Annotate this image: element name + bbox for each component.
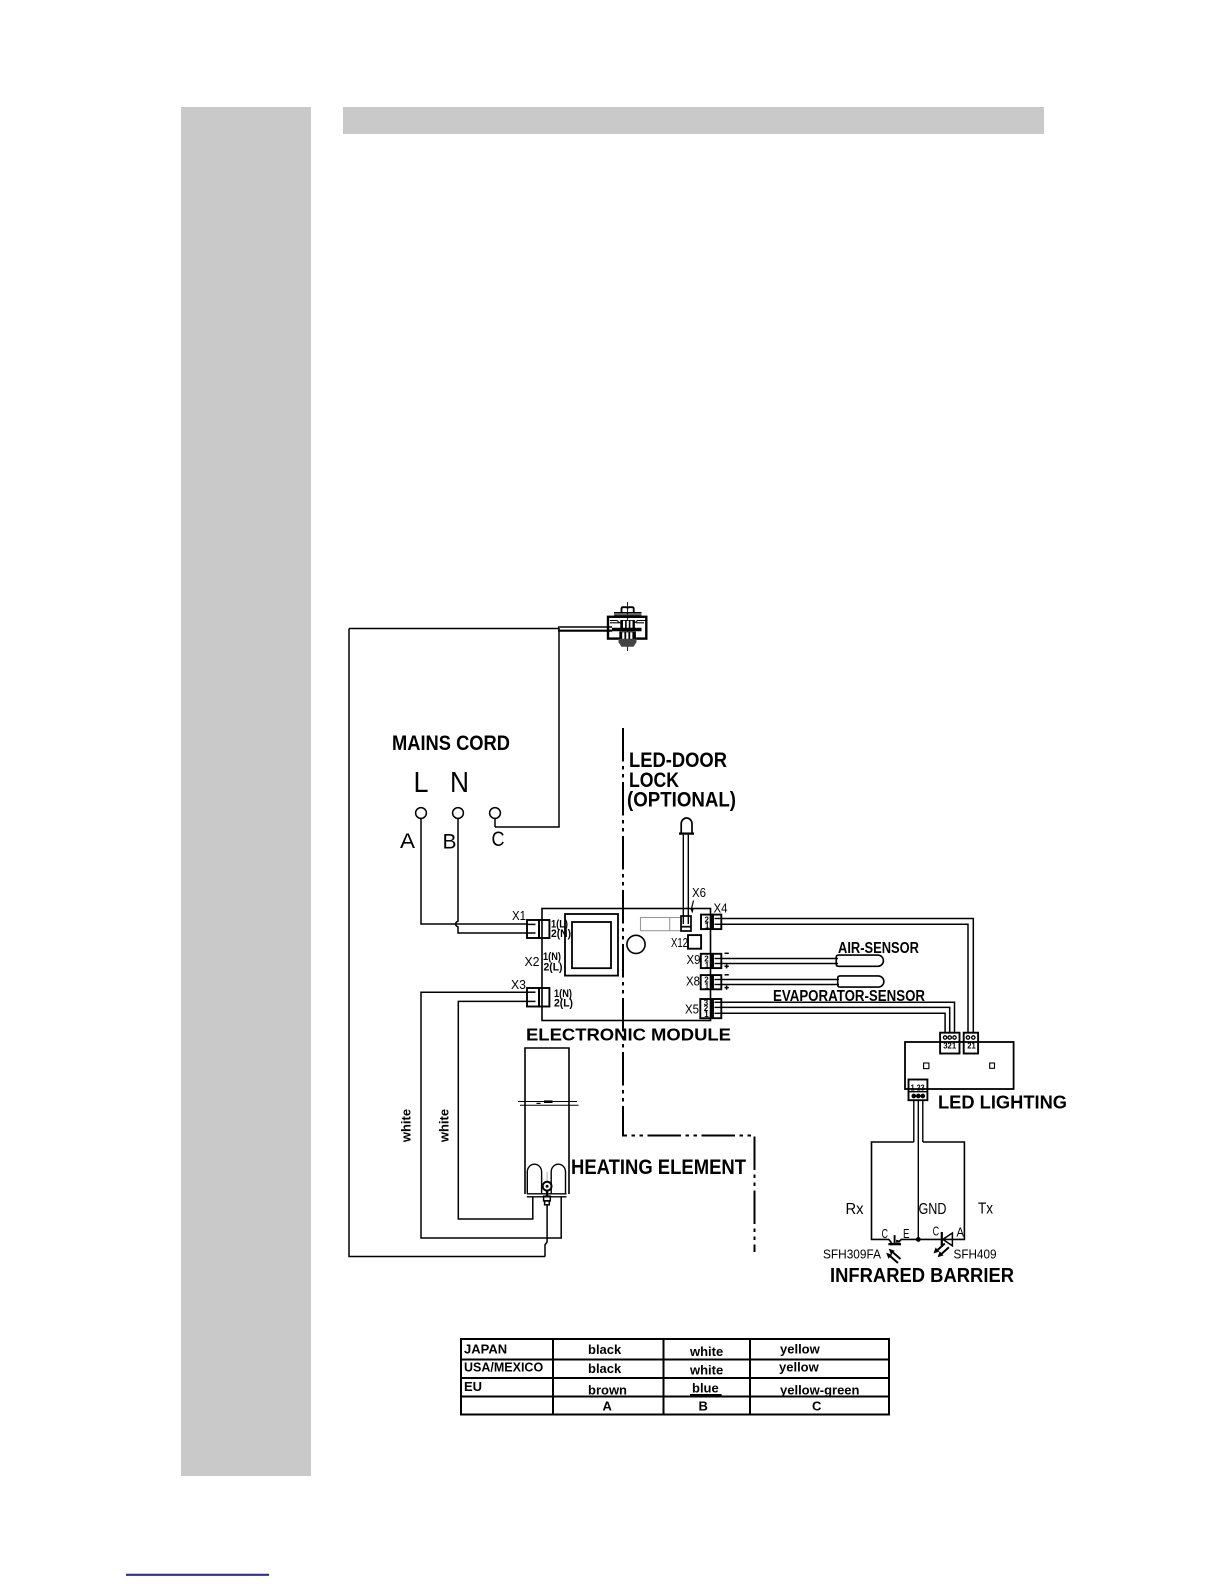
svg-text:white: white — [399, 1109, 414, 1143]
svg-text:(OPTIONAL): (OPTIONAL) — [627, 789, 736, 812]
wire: GND lead — [917, 1100, 919, 1239]
label X8 with polarity marks — [686, 974, 729, 990]
svg-text:black: black — [588, 1342, 622, 1357]
label X1 and pins 1(L) 2(N) — [512, 908, 571, 940]
wiring color table — [461, 1339, 889, 1415]
svg-text:INFRARED BARRIER: INFRARED BARRIER — [830, 1265, 1015, 1287]
wire: X9 pin - to air sensor — [721, 958, 838, 960]
connector X9 — [701, 954, 722, 970]
svg-text:X8: X8 — [686, 974, 700, 989]
evaporator sensor — [838, 976, 884, 987]
svg-text:GND: GND — [919, 1201, 947, 1218]
svg-text:X6: X6 — [692, 885, 706, 900]
svg-text:321: 321 — [943, 1042, 957, 1051]
wire: X5 pin 1 to LED lighting 321 — [721, 1013, 945, 1032]
buzzer circle — [627, 935, 645, 953]
junction: GND node — [916, 1237, 921, 1242]
heating element body — [525, 1048, 569, 1197]
wire: X3 pin 2 (white) to heater left terminal — [458, 1001, 533, 1219]
svg-text:MAINS CORD: MAINS CORD — [392, 732, 510, 755]
svg-text:JAPAN: JAPAN — [464, 1342, 507, 1357]
earth clamp terminal — [608, 602, 646, 651]
svg-text:1: 1 — [705, 922, 710, 931]
connector X5 — [700, 999, 721, 1020]
labels C E (phototransistor pins) — [882, 1227, 910, 1241]
wire: X5 pin 2 to LED lighting 321 — [721, 1007, 949, 1032]
svg-text:Rx: Rx — [846, 1201, 864, 1218]
svg-text:1: 1 — [705, 961, 710, 970]
wire: LED lead 2 — [687, 835, 689, 924]
heating element break marks — [518, 1102, 579, 1106]
LED door lock LED — [679, 818, 694, 834]
electronic module board — [542, 909, 711, 1021]
svg-text:C: C — [933, 1225, 940, 1239]
svg-text:AIR-SENSOR: AIR-SENSOR — [838, 940, 919, 957]
label LED-DOOR LOCK (OPTIONAL) — [627, 749, 736, 812]
connector X8 — [701, 975, 722, 991]
svg-text:A: A — [400, 830, 415, 853]
svg-text:2(L): 2(L) — [544, 962, 563, 974]
svg-text:B: B — [699, 1399, 708, 1414]
LED lighting board — [905, 1042, 1014, 1089]
wire: C to right drop — [495, 826, 560, 828]
svg-text:1 23: 1 23 — [911, 1083, 925, 1092]
wire: Rx lead — [913, 1100, 915, 1142]
labels C A (IR LED pins) — [933, 1225, 965, 1240]
ground screw on heating element — [543, 1172, 552, 1205]
svg-text:white: white — [689, 1344, 723, 1359]
wire: mains box top edge — [349, 628, 559, 630]
label X2 and pins 1(N) 2(L) — [525, 951, 563, 974]
svg-text:EU: EU — [464, 1379, 482, 1394]
wire: X3 pin 1 (white) to heater right terminal — [421, 992, 561, 1238]
infrared barrier outline — [872, 1142, 965, 1243]
label X9 with polarity marks — [687, 952, 729, 968]
hyperlink rule — [126, 1574, 269, 1576]
connector X3 — [527, 988, 549, 1007]
transformer — [565, 914, 618, 976]
connector 21 — [964, 1033, 978, 1054]
svg-text:SFH309FA: SFH309FA — [823, 1247, 881, 1262]
underline under blue — [690, 1394, 722, 1396]
wire: Tx lead — [922, 1100, 924, 1142]
door boundary (dash-dot) — [623, 728, 755, 1252]
wire: X8 pin - to evaporator sensor — [721, 979, 839, 981]
svg-text:2(L): 2(L) — [554, 998, 573, 1010]
terminal C — [490, 808, 501, 827]
svg-text:white: white — [437, 1109, 452, 1143]
svg-text:black: black — [588, 1361, 622, 1376]
wire: LED lead 1 — [682, 835, 684, 924]
wire: earth return (left edge and bottom) — [349, 629, 545, 1257]
svg-text:X3: X3 — [511, 977, 526, 992]
terminal L — [416, 808, 427, 819]
svg-text:blue: blue — [692, 1381, 719, 1396]
wire: L down to X1 pin 1 — [421, 818, 527, 924]
svg-text:A: A — [957, 1226, 965, 1240]
svg-text:X5: X5 — [685, 1002, 699, 1017]
wire: X9 pin + to air sensor — [721, 963, 838, 965]
connector X12 — [688, 935, 701, 949]
IR LED SFH409 — [934, 1232, 953, 1257]
svg-text:SFH409: SFH409 — [954, 1247, 997, 1262]
svg-text:A: A — [603, 1399, 613, 1414]
svg-text:X4: X4 — [714, 901, 728, 916]
svg-text:L: L — [414, 767, 429, 799]
wire: right drop to terminal C — [558, 628, 560, 827]
connector X1 — [527, 920, 549, 938]
svg-text:LED LIGHTING: LED LIGHTING — [938, 1093, 1067, 1113]
svg-text:X9: X9 — [687, 952, 701, 967]
wire: N down to X1 pin 2 (hops over L wire) — [456, 818, 527, 933]
label X3 and pins 1(N) 2(L) — [511, 977, 573, 1010]
svg-text:N: N — [450, 767, 469, 799]
svg-text:2(N): 2(N) — [551, 928, 571, 940]
air sensor — [836, 955, 883, 966]
svg-text:yellow: yellow — [779, 1360, 820, 1375]
connector X6 — [681, 916, 691, 931]
svg-text:brown: brown — [588, 1383, 627, 1398]
svg-text:B: B — [443, 831, 457, 854]
wire: X8 pin + to evaporator sensor — [721, 984, 839, 986]
wire: X4 pin 2 to LED lighting connector 21 — [721, 919, 973, 1033]
svg-text:HEATING ELEMENT: HEATING ELEMENT — [571, 1156, 746, 1179]
connector X4 — [701, 915, 721, 931]
connector 123 — [909, 1080, 928, 1101]
svg-text:white: white — [689, 1363, 723, 1378]
terminal N — [453, 808, 464, 819]
wire: heater ground screw to earth return — [545, 1205, 547, 1257]
svg-text:1: 1 — [705, 982, 710, 991]
svg-text:21: 21 — [967, 1042, 976, 1051]
svg-text:USA/MEXICO: USA/MEXICO — [464, 1361, 543, 1375]
wire: X5 pin 3 to LED lighting 321 — [721, 1002, 954, 1032]
svg-text:yellow-green: yellow-green — [780, 1383, 860, 1398]
svg-text:ELECTRONIC MODULE: ELECTRONIC MODULE — [526, 1025, 731, 1045]
relay (gray outline) — [641, 918, 682, 931]
svg-text:yellow: yellow — [780, 1342, 821, 1357]
wire: X4 pin 1 to LED lighting connector 21 — [721, 924, 968, 1032]
svg-text:C: C — [882, 1227, 889, 1241]
wire: earth lead to clamp (double) — [558, 627, 612, 631]
phototransistor SFH309FA — [886, 1235, 901, 1263]
svg-text:X2: X2 — [525, 954, 540, 969]
svg-text:X12: X12 — [671, 935, 688, 950]
svg-text:C: C — [812, 1399, 822, 1414]
label X6 with leader arrow — [690, 885, 706, 914]
svg-text:E: E — [903, 1227, 910, 1241]
svg-text:1: 1 — [704, 1010, 709, 1019]
svg-text:C: C — [492, 828, 505, 851]
connector 321 — [940, 1033, 959, 1054]
svg-text:X1: X1 — [512, 908, 526, 923]
svg-text:Tx: Tx — [978, 1201, 993, 1218]
